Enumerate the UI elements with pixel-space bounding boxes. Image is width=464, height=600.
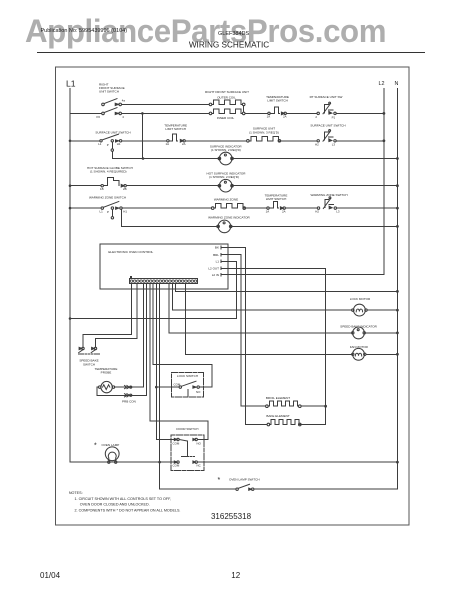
warming zone element — [211, 204, 245, 210]
N rail — [396, 89, 398, 490]
L2 rail — [383, 89, 385, 275]
wire hot surface indicator to N — [232, 185, 397, 187]
junction L1 rail tap — [69, 317, 72, 320]
svg-text:01/04: 01/04 — [40, 571, 61, 580]
wire tap to lock COM — [156, 386, 179, 388]
svg-text:H2: H2 — [315, 210, 319, 214]
wire L1 to warming switch — [70, 207, 101, 209]
svg-text:4a: 4a — [122, 98, 126, 102]
svg-text:Publication No: 5995439996 (01: Publication No: 5995439996 (0104) — [41, 28, 128, 34]
strip drop 8 to oven lamp row — [159, 284, 161, 462]
schematic border — [56, 67, 410, 525]
svg-text:L2 IN: L2 IN — [212, 273, 219, 277]
inner coil element — [209, 109, 245, 115]
neutral return row — [176, 290, 398, 292]
coil join vertical — [243, 106, 245, 112]
probe top wire to connector — [115, 386, 144, 388]
svg-text:LIMIT SWITCH: LIMIT SWITCH — [165, 127, 186, 131]
oven lamp switch feed — [160, 462, 236, 489]
strip drop 9 to speed bake indicator row — [168, 284, 170, 333]
svg-text:WARMING ZONE SWITCH: WARMING ZONE SWITCH — [310, 193, 347, 197]
junction oven lamp row — [158, 461, 161, 464]
wire BK to drop — [221, 248, 246, 425]
svg-text:1A: 1A — [166, 142, 170, 146]
strip drop 2 to speed bake switch right — [96, 284, 138, 348]
wire warming indicator to N — [231, 225, 398, 227]
svg-text:LIMIT SWITCH: LIMIT SWITCH — [266, 197, 287, 201]
svg-text:OVEN LAMP: OVEN LAMP — [102, 443, 120, 447]
wire broil right — [301, 405, 326, 407]
svg-text:SPEED BAKE INDICATOR: SPEED BAKE INDICATOR — [340, 324, 377, 328]
svg-text:PRB CON: PRB CON — [122, 400, 136, 404]
strip drop 1 to speed bake switch left — [83, 284, 132, 348]
wire BRL to drop — [221, 255, 241, 407]
wire lock motor to N — [367, 309, 397, 311]
junction row4 L1 — [69, 207, 72, 210]
svg-text:WARMING ZONE INDICATOR: WARMING ZONE INDICATOR — [208, 215, 250, 219]
svg-text:2A: 2A — [182, 142, 186, 146]
svg-text:NOTES:: NOTES: — [69, 491, 83, 495]
rf surface unit infinite switch — [317, 102, 336, 115]
svg-text:12: 12 — [231, 571, 240, 580]
warming zone infinite switch — [317, 197, 336, 210]
lock motor — [352, 304, 368, 316]
EOC terminal label L2 IN — [212, 273, 219, 277]
wire L2 OUT to broil drop — [221, 268, 326, 424]
strip drop 3 to probe top — [142, 284, 144, 387]
svg-text:L2: L2 — [379, 81, 385, 87]
right front surface unit switch label — [99, 83, 125, 94]
svg-text:COM: COM — [173, 464, 180, 468]
probe bottom loop wire — [97, 387, 147, 395]
temperature limit switch label row2 — [164, 124, 187, 132]
EOC terminal label BRL — [213, 253, 219, 257]
svg-text:*: * — [218, 477, 221, 484]
junction broil L2 drop — [324, 405, 327, 408]
temperature limit switch row1 — [268, 107, 287, 115]
fan motor row wire — [185, 353, 352, 355]
svg-text:DOOR SWITCH: DOOR SWITCH — [176, 427, 198, 431]
svg-text:INNER COIL: INNER COIL — [217, 116, 235, 120]
EOC terminal ticks — [220, 246, 222, 276]
svg-text:LOCK MOTOR: LOCK MOTOR — [350, 297, 371, 301]
fan motor — [352, 348, 366, 360]
svg-text:(1 SHOWN, 2 REQ'D): (1 SHOWN, 2 REQ'D) — [209, 175, 239, 179]
svg-text:RIGHT FRONT SURFACE UNIT: RIGHT FRONT SURFACE UNIT — [205, 90, 249, 94]
svg-text:1A: 1A — [266, 209, 270, 213]
oven lamp row wire — [70, 461, 397, 463]
junction row1 — [141, 112, 144, 115]
svg-text:1A: 1A — [267, 115, 271, 119]
surface indicator label — [210, 144, 243, 152]
wire temp limit to rf switch row1 — [286, 112, 317, 114]
wire oven lamp switch to N — [254, 488, 398, 490]
wire speed bake indicator to N — [365, 332, 397, 334]
svg-text:NC: NC — [197, 464, 201, 468]
strip drop 10 to lock motor row — [171, 284, 173, 310]
junction row1 L2 — [383, 112, 386, 115]
wire broil left — [241, 405, 265, 407]
svg-text:GLEF384DS: GLEF384DS — [218, 31, 250, 37]
wire row4 to N — [337, 207, 398, 209]
svg-text:L1: L1 — [216, 260, 220, 264]
svg-text:BROIL ELEMENT: BROIL ELEMENT — [266, 396, 290, 400]
svg-text:H1: H1 — [123, 210, 127, 214]
wire L1 to globe switch — [70, 185, 101, 187]
right front surface unit switch — [102, 99, 122, 115]
junction speed bake indicator N — [396, 332, 399, 335]
junction warming indicator N — [396, 225, 399, 228]
temperature probe label — [95, 367, 118, 375]
svg-text:LOCK SWITCH: LOCK SWITCH — [177, 374, 198, 378]
junction hot surface indicator N — [396, 184, 399, 187]
svg-text:BK: BK — [215, 246, 219, 250]
oven lamp — [105, 447, 119, 463]
hot surface globe switch — [101, 178, 126, 188]
bake element — [267, 420, 301, 426]
svg-text:H2: H2 — [315, 142, 319, 146]
wire row2 to L2 — [336, 140, 384, 142]
surface unit switch row2 — [100, 134, 122, 142]
speed bake indicator lamp — [352, 327, 366, 339]
svg-text:(1 SHOWN, 2 REQ'D): (1 SHOWN, 2 REQ'D) — [211, 148, 241, 152]
wire bake left — [246, 424, 268, 426]
wire element to switch row2 — [281, 140, 317, 142]
svg-text:L1: L1 — [98, 142, 102, 146]
junction row2 L2 — [383, 139, 386, 142]
temperature probe — [99, 381, 115, 392]
L1 rail — [69, 89, 71, 463]
watermark — [25, 15, 386, 47]
surface indicator feed wire — [112, 158, 219, 160]
svg-text:(1 SHOWN, 3 REQ'D): (1 SHOWN, 3 REQ'D) — [249, 130, 279, 134]
svg-text:316255318: 316255318 — [211, 512, 252, 521]
strip drop 11 to neutral row — [175, 284, 177, 292]
surface unit element — [247, 136, 281, 142]
header rule — [37, 52, 425, 54]
junction lock switch tap — [155, 386, 158, 389]
oven lamp switch — [236, 484, 254, 490]
EOC terminal strip — [129, 276, 197, 284]
wire bake right — [301, 424, 326, 426]
svg-text:NO: NO — [197, 441, 202, 445]
broil element — [266, 401, 302, 407]
svg-text:ELECTRONIC OVEN CONTROL: ELECTRONIC OVEN CONTROL — [108, 250, 153, 254]
strip drop 4 to probe bottom — [146, 284, 148, 396]
svg-text:WARMING ZONE: WARMING ZONE — [214, 198, 238, 202]
temperature limit switch label row1 — [266, 95, 289, 103]
vertical row1 to indicator row — [141, 113, 144, 158]
electronic oven control box — [100, 244, 228, 289]
junction row4 N — [396, 207, 399, 210]
warming zone indicator lamp — [217, 220, 232, 233]
svg-text:2. COMPONENTS WITH * DO NOT: 2. COMPONENTS WITH * DO NOT APPEAR ON AL… — [75, 508, 181, 512]
hot surface globe switch label — [87, 166, 133, 174]
lock motor row wire — [172, 309, 352, 311]
strip drop 7 to door switch COM — [156, 284, 176, 440]
svg-text:*: * — [94, 443, 97, 450]
svg-text:RT SURFACE UNIT SW: RT SURFACE UNIT SW — [310, 95, 343, 99]
door switch lower contacts — [174, 461, 197, 463]
wire switch to temp limit row2 — [122, 140, 167, 142]
probe connector bottom — [125, 394, 132, 397]
lock switch box — [171, 372, 203, 397]
junction row3 L1 — [69, 184, 72, 187]
svg-text:4: 4 — [122, 115, 124, 119]
svg-text:UNIT SWITCH: UNIT SWITCH — [99, 90, 119, 94]
wire globe switch to hot surface indicator — [126, 185, 219, 187]
surface unit infinite switch row2 — [317, 130, 336, 143]
wire switch to warming element — [122, 207, 211, 209]
wire element to temp limit row4 — [246, 207, 267, 209]
svg-text:L2 OUT: L2 OUT — [208, 267, 219, 271]
temperature limit switch row2 — [167, 134, 186, 142]
svg-text:SURFACE UNIT SWITCH: SURFACE UNIT SWITCH — [95, 131, 130, 135]
svg-text:BRL: BRL — [213, 253, 219, 257]
svg-text:L3: L3 — [336, 210, 340, 214]
hot surface indicator lamp — [218, 179, 233, 192]
door switch link — [181, 441, 194, 456]
svg-text:SURFACE UNIT SWITCH: SURFACE UNIT SWITCH — [310, 123, 345, 127]
svg-text:PROBE: PROBE — [101, 370, 112, 374]
junction surface indicator N — [396, 157, 399, 160]
svg-text:N: N — [395, 81, 399, 87]
strip drop 12 to fan motor row — [184, 284, 186, 355]
svg-text:OUTER COIL: OUTER COIL — [217, 96, 236, 100]
surface indicator lamp — [218, 152, 233, 165]
svg-text:WARMING ZONE SWITCH: WARMING ZONE SWITCH — [89, 196, 126, 200]
svg-text:1B: 1B — [100, 187, 104, 191]
svg-text:P: P — [107, 210, 109, 214]
speed bake switch label — [79, 359, 98, 367]
temperature limit switch row4 — [267, 202, 286, 210]
svg-text:2A: 2A — [283, 115, 287, 119]
wire L1 to switch row2 — [70, 140, 100, 142]
junction row2 L1 — [69, 140, 72, 143]
junction lock motor N — [396, 309, 399, 312]
surface unit element label — [249, 126, 279, 134]
wire switch to coils row1 main — [122, 112, 210, 114]
svg-text:L3: L3 — [332, 142, 336, 146]
svg-text:L1: L1 — [100, 210, 104, 214]
wire coils to temp limit row1 — [245, 112, 268, 114]
svg-text:2B: 2B — [123, 187, 127, 191]
svg-text:COM: COM — [173, 441, 180, 445]
svg-text:2: 2 — [315, 115, 317, 119]
wire switch to outer coil branch — [122, 103, 210, 105]
door switch box — [171, 435, 204, 471]
svg-text:P: P — [107, 143, 109, 147]
wire temp limit to element row2 — [185, 140, 246, 142]
lock switch contacts — [179, 381, 199, 396]
svg-text:P1: P1 — [332, 115, 336, 119]
probe connector top — [125, 386, 132, 389]
wire row1 to L2 — [336, 112, 384, 114]
speed bake switch — [79, 347, 100, 354]
outer coil element — [209, 100, 245, 106]
svg-text:NO: NO — [196, 390, 201, 394]
svg-text:OVEN DOOR CLOSED AND UNLOCKED.: OVEN DOOR CLOSED AND UNLOCKED. — [80, 503, 150, 507]
row2 pilot drop with terminal — [111, 142, 113, 159]
strip drop 6 to lock switch NO — [153, 284, 212, 387]
svg-text:(1 SHOWN, 4 REQUIRED): (1 SHOWN, 4 REQUIRED) — [90, 170, 127, 174]
svg-text:OVEN LAMP SWITCH: OVEN LAMP SWITCH — [229, 478, 260, 482]
EOC terminal label L2 OUT — [208, 267, 219, 271]
svg-text:1. CIRCUIT SHOWN WITH ALL CON: 1. CIRCUIT SHOWN WITH ALL CONTROLS SET T… — [75, 497, 172, 501]
temperature limit switch label row4 — [265, 193, 288, 201]
svg-text:BAKE ELEMENT: BAKE ELEMENT — [266, 414, 290, 418]
junction neutral row N — [396, 290, 399, 293]
EOC terminal label BK — [215, 246, 219, 250]
hot surface indicator label — [207, 171, 247, 179]
svg-text:SWITCH: SWITCH — [83, 362, 95, 366]
wire L2 IN from L2 rail — [221, 274, 384, 276]
EOC terminal label L1 — [216, 260, 220, 264]
wire L1 terminal to L1 rail — [70, 261, 237, 318]
warming indicator feed — [122, 209, 219, 226]
strip drop 5 to door switch NO — [150, 284, 208, 440]
notes — [69, 491, 181, 512]
junction fan motor N — [396, 353, 399, 356]
speed bake indicator row wire — [169, 332, 352, 334]
wire surface indicator to N — [232, 158, 397, 160]
wire L1 to switch row1 — [70, 112, 102, 114]
svg-text:P2: P2 — [97, 115, 101, 119]
svg-text:L1: L1 — [66, 79, 76, 89]
door switch upper contacts — [174, 438, 197, 441]
svg-text:LIMIT SWITCH: LIMIT SWITCH — [267, 99, 288, 103]
row4 pilot stub with terminal — [111, 209, 113, 219]
svg-text:COM: COM — [174, 383, 181, 387]
junction oven lamp row N — [396, 461, 399, 464]
junction surface indicator — [142, 157, 145, 160]
wire fan motor to N — [366, 353, 397, 355]
warming zone switch — [101, 202, 122, 210]
svg-text:2A: 2A — [282, 209, 286, 213]
wire temp limit to warming switch right — [285, 207, 317, 209]
svg-text:H1: H1 — [117, 142, 121, 146]
svg-text:WIRING SCHEMATIC: WIRING SCHEMATIC — [189, 41, 269, 50]
